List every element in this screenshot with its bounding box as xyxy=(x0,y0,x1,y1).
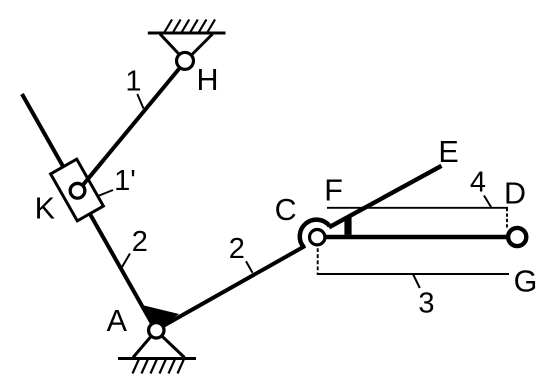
svg-text:H: H xyxy=(196,63,218,97)
svg-text:D: D xyxy=(504,177,526,211)
svg-text:3: 3 xyxy=(418,288,434,320)
svg-text:C: C xyxy=(275,193,297,227)
svg-text:2: 2 xyxy=(132,226,148,258)
svg-text:1': 1' xyxy=(114,165,136,197)
svg-text:K: K xyxy=(35,191,55,225)
svg-text:4: 4 xyxy=(470,167,486,199)
svg-text:G: G xyxy=(514,265,538,299)
svg-text:A: A xyxy=(107,304,128,338)
svg-text:F: F xyxy=(324,174,343,208)
svg-text:1: 1 xyxy=(125,66,141,98)
svg-text:2: 2 xyxy=(229,233,245,265)
svg-text:E: E xyxy=(438,135,458,169)
